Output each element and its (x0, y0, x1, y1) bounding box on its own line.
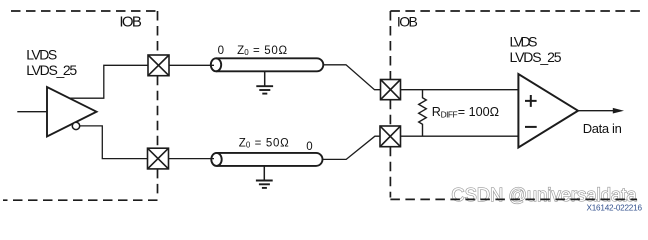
pad top-right (IOB pad, crossed square) (381, 80, 401, 100)
wire: top-right pad to receiver (401, 89, 519, 91)
wire: bottom-right pad to receiver (401, 135, 519, 137)
svg-text:Z: Z (239, 137, 246, 149)
svg-text:0: 0 (218, 45, 224, 57)
wire: top-left pad to top transmission line (169, 64, 214, 66)
label Z0 = 50 ohm (top) (237, 45, 287, 57)
svg-text:= 50Ω: = 50Ω (255, 137, 289, 149)
minus sign (inverting input) (525, 126, 537, 128)
wire: driver noninverting output to top-left pad (70, 65, 148, 98)
inversion bubble on driver (72, 122, 79, 129)
wire: bottom-left pad to bottom transmission line (169, 158, 215, 160)
transmission line T2 (bottom coax cylinder) (211, 153, 322, 166)
arrowhead (613, 108, 624, 114)
wire: driver inverting output to bottom-left pad (80, 126, 148, 159)
svg-text:LVDS: LVDS (510, 34, 538, 50)
wire: top line to top-right pad (diagonal) (323, 65, 380, 90)
IOB box left (dashed, transmitter side) (3, 11, 158, 200)
svg-text:LVDS: LVDS (26, 46, 57, 62)
ground (top line) (256, 72, 273, 94)
svg-text:X16142-022216: X16142-022216 (587, 204, 643, 213)
svg-text:LVDS_25: LVDS_25 (26, 62, 77, 78)
label RDIFF = 100 ohm (432, 105, 499, 120)
svg-text:0: 0 (306, 141, 312, 153)
pad bottom-left (IOB pad, crossed square) (148, 148, 169, 169)
pad top-left (IOB pad, crossed square) (148, 55, 169, 76)
svg-text:R: R (432, 105, 441, 119)
driver input wire (17, 111, 47, 113)
svg-text:IOB: IOB (119, 14, 141, 31)
svg-text:= 50Ω: = 50Ω (253, 45, 287, 57)
plus sign (noninverting input) (525, 95, 537, 107)
driver buffer U1 (LVDS output buffer triangle) (47, 87, 97, 137)
resistor RDIFF (differential termination) (419, 90, 427, 137)
svg-text:= 100Ω: = 100Ω (458, 105, 499, 119)
svg-text:DIFF: DIFF (441, 110, 458, 120)
svg-text:LVDS_25: LVDS_25 (510, 49, 562, 65)
transmission line T1 (top coax cylinder) (211, 58, 323, 71)
label Z0 = 50 ohm (bottom) (239, 137, 289, 149)
svg-text:0: 0 (244, 48, 249, 57)
svg-text:CSDN @universaldata: CSDN @universaldata (452, 185, 638, 205)
ground (bottom line) (256, 167, 273, 188)
svg-text:0: 0 (246, 141, 251, 150)
IOB box right (dashed, receiver side) (390, 11, 641, 199)
svg-text:IOB: IOB (397, 13, 418, 29)
wire: bottom line to bottom-right pad (diagonal) (323, 136, 381, 159)
receiver buffer U2 (LVDS input comparator triangle) (518, 74, 578, 148)
svg-text:Data in: Data in (583, 121, 622, 136)
output wire with arrow (578, 110, 614, 112)
pad bottom-right (IOB pad, crossed square) (380, 126, 401, 147)
svg-text:Z: Z (237, 45, 244, 57)
